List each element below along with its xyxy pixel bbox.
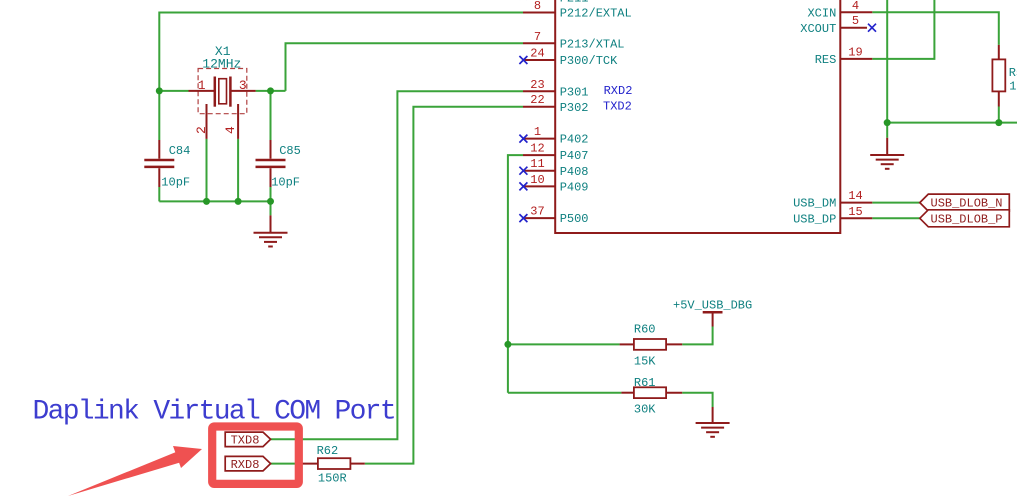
svg-text:37: 37 bbox=[530, 205, 544, 219]
svg-text:USB_DLOB_P: USB_DLOB_P bbox=[931, 212, 1003, 226]
svg-text:4: 4 bbox=[852, 0, 859, 13]
svg-text:1: 1 bbox=[198, 78, 206, 93]
svg-text:RXD8: RXD8 bbox=[231, 458, 260, 472]
svg-text:USB_DM: USB_DM bbox=[793, 197, 836, 211]
svg-text:2: 2 bbox=[194, 126, 209, 134]
svg-text:R58: R58 bbox=[1009, 66, 1017, 80]
svg-text:4: 4 bbox=[223, 126, 238, 134]
svg-text:12MHz: 12MHz bbox=[202, 56, 241, 71]
svg-text:R60: R60 bbox=[634, 323, 656, 337]
svg-text:RXD2: RXD2 bbox=[604, 84, 633, 98]
svg-text:P302: P302 bbox=[560, 101, 589, 115]
svg-text:23: 23 bbox=[530, 78, 544, 92]
svg-text:R62: R62 bbox=[317, 444, 339, 458]
svg-text:1: 1 bbox=[534, 125, 541, 139]
svg-text:P300/TCK: P300/TCK bbox=[560, 54, 618, 68]
svg-text:C85: C85 bbox=[279, 144, 301, 158]
svg-text:5: 5 bbox=[852, 14, 859, 28]
svg-text:150R: 150R bbox=[318, 472, 347, 486]
svg-text:10: 10 bbox=[530, 173, 544, 187]
svg-text:XCOUT: XCOUT bbox=[800, 22, 836, 36]
svg-text:P409: P409 bbox=[560, 181, 589, 195]
svg-text:15: 15 bbox=[848, 205, 862, 219]
svg-text:22: 22 bbox=[530, 93, 544, 107]
svg-text:TXD2: TXD2 bbox=[603, 100, 632, 114]
svg-text:+5V_USB_DBG: +5V_USB_DBG bbox=[673, 299, 752, 313]
svg-text:10pF: 10pF bbox=[271, 175, 300, 189]
svg-text:XCIN: XCIN bbox=[807, 6, 836, 20]
svg-text:10pF: 10pF bbox=[161, 175, 190, 189]
svg-text:19: 19 bbox=[848, 45, 862, 59]
svg-text:P407: P407 bbox=[560, 149, 589, 163]
svg-text:RES: RES bbox=[815, 53, 837, 67]
svg-text:11: 11 bbox=[530, 157, 544, 171]
svg-text:TXD8: TXD8 bbox=[231, 434, 260, 448]
svg-text:30K: 30K bbox=[634, 403, 656, 417]
svg-text:15K: 15K bbox=[634, 355, 656, 369]
svg-text:P402: P402 bbox=[560, 133, 589, 147]
svg-text:P301: P301 bbox=[560, 85, 589, 99]
svg-text:USB_DP: USB_DP bbox=[793, 212, 836, 226]
svg-text:12: 12 bbox=[530, 142, 544, 156]
svg-text:8: 8 bbox=[534, 0, 541, 13]
svg-text:P408: P408 bbox=[560, 165, 589, 179]
svg-text:7: 7 bbox=[534, 30, 541, 44]
svg-text:P212/EXTAL: P212/EXTAL bbox=[560, 7, 632, 21]
svg-text:USB_DLOB_N: USB_DLOB_N bbox=[931, 197, 1003, 211]
svg-text:24: 24 bbox=[530, 47, 544, 61]
svg-text:P213/XTAL: P213/XTAL bbox=[560, 37, 625, 51]
svg-text:P211: P211 bbox=[560, 0, 589, 6]
svg-text:10K: 10K bbox=[1009, 79, 1017, 93]
svg-text:P500: P500 bbox=[560, 212, 589, 226]
svg-text:R61: R61 bbox=[634, 376, 656, 390]
svg-text:14: 14 bbox=[848, 189, 862, 203]
svg-text:3: 3 bbox=[239, 78, 247, 93]
svg-text:C84: C84 bbox=[169, 144, 191, 158]
